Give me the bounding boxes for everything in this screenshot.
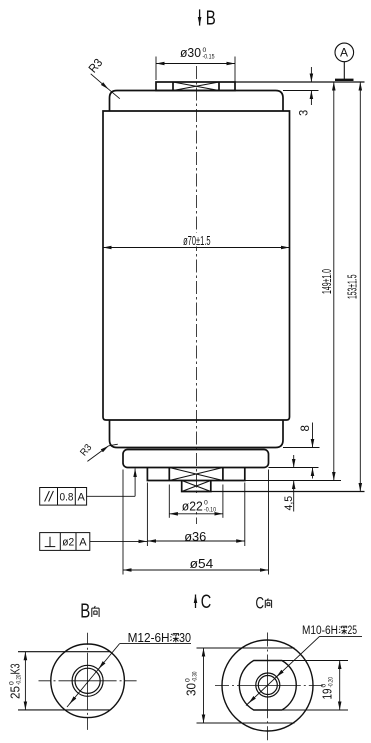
- svg-text:149±1.0: 149±1.0: [321, 269, 335, 294]
- svg-text:ø2: ø2: [62, 536, 74, 548]
- svg-text:A: A: [340, 46, 348, 60]
- svg-text:0.8: 0.8: [60, 491, 74, 504]
- svg-text:-0.15: -0.15: [203, 53, 216, 61]
- svg-text:30: 30: [179, 631, 191, 645]
- svg-text:0: 0: [9, 681, 16, 685]
- svg-text:C: C: [256, 595, 264, 613]
- svg-text:M12-6H: M12-6H: [128, 631, 170, 645]
- svg-text:-0.30: -0.30: [192, 672, 199, 682]
- svg-text:R3: R3: [87, 57, 106, 76]
- svg-text:30: 30: [184, 683, 198, 696]
- svg-text:ø30: ø30: [180, 46, 201, 60]
- svg-text:C: C: [201, 591, 211, 612]
- svg-text:A: A: [78, 491, 86, 503]
- svg-text:-0.20: -0.20: [328, 677, 335, 687]
- svg-text:-0.20: -0.20: [16, 675, 23, 685]
- svg-text:B: B: [80, 599, 90, 622]
- svg-text:A: A: [79, 537, 87, 549]
- svg-text:25: 25: [348, 625, 358, 638]
- svg-text:ø36: ø36: [184, 529, 206, 544]
- svg-text:ø70±1.5: ø70±1.5: [183, 235, 211, 248]
- svg-text:-0.10: -0.10: [204, 506, 217, 514]
- svg-text:0: 0: [185, 678, 192, 682]
- svg-text:4,5: 4,5: [283, 496, 295, 511]
- svg-text:19: 19: [322, 689, 335, 700]
- svg-text:0: 0: [321, 684, 328, 688]
- svg-text:M10-6H: M10-6H: [302, 624, 338, 637]
- svg-text:8: 8: [300, 425, 312, 431]
- svg-text:K3: K3: [9, 664, 23, 675]
- svg-text:B: B: [206, 6, 216, 29]
- svg-text:R3: R3: [78, 442, 94, 458]
- svg-text:ø54: ø54: [190, 556, 214, 570]
- svg-text:ø22: ø22: [182, 499, 203, 513]
- svg-text:25: 25: [8, 686, 22, 699]
- svg-text:3: 3: [298, 110, 311, 116]
- svg-text:153±1.5: 153±1.5: [347, 274, 361, 299]
